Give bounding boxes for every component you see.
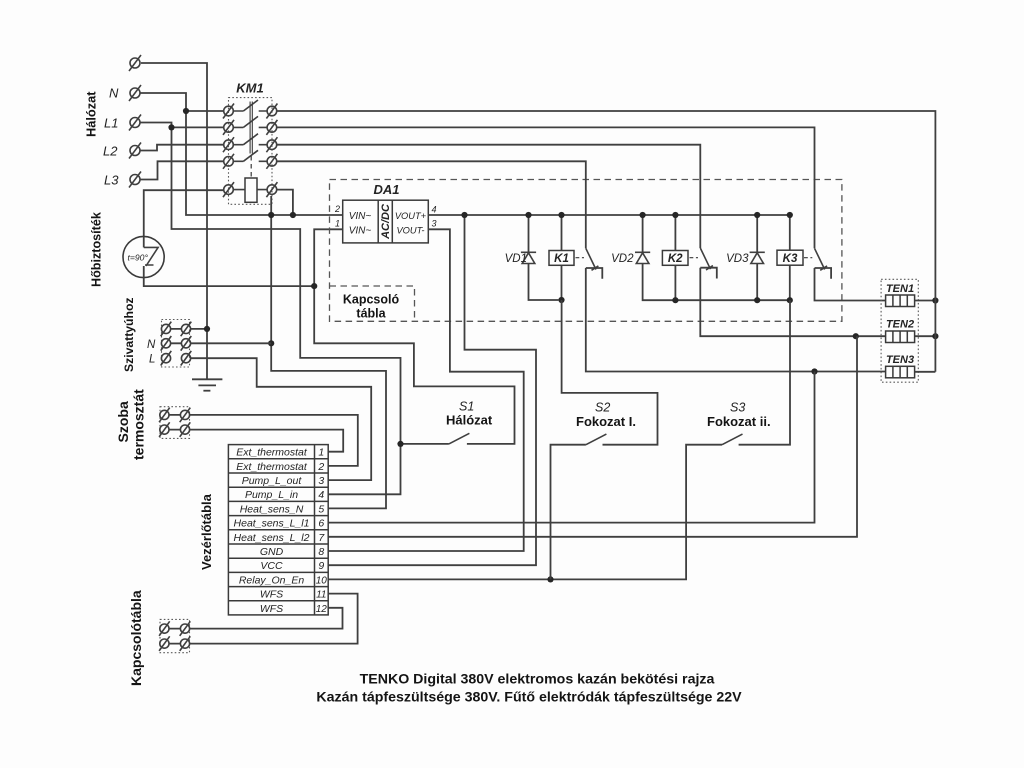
wire pump L to pin3 Pump_L_out (191, 358, 372, 480)
svg-text:4: 4 (432, 205, 437, 215)
svg-text:K2: K2 (668, 253, 683, 265)
svg-text:GND: GND (260, 546, 284, 558)
pump terminal row earth (161, 322, 207, 337)
relay coil K2 (662, 215, 698, 300)
svg-text:TEN1: TEN1 (886, 283, 914, 295)
relay contact K2 feeds TEN2 (700, 248, 886, 336)
svg-text:VCC: VCC (260, 560, 283, 572)
svg-text:Kapcsoló: Kapcsoló (343, 293, 400, 307)
wire KM1 coil right to N line (271, 190, 386, 509)
pin11 WFS (260, 589, 327, 601)
wire pin6 Heat_sens_L_l1 to TEN3 feed (328, 372, 814, 523)
diode VD1 (505, 215, 559, 300)
wire L3 to KM1 row4 (140, 161, 224, 179)
KM1 mechanical link (250, 102, 252, 179)
pin5 Heat_sens_N (240, 503, 325, 515)
svg-text:Hálózat: Hálózat (84, 91, 99, 137)
svg-text:WFS: WFS (260, 589, 283, 601)
wire pin7 Heat_sens_L_l2 to TEN2 feed (328, 336, 857, 537)
node K1 rail (558, 297, 564, 303)
wire fuse output to S1 feed node (144, 266, 314, 286)
svg-text:Vezérlőtábla: Vezérlőtábla (199, 493, 214, 570)
switch S2 (551, 300, 658, 579)
node coil-N b (290, 212, 296, 218)
svg-text:4: 4 (318, 489, 324, 501)
svg-text:VD3: VD3 (726, 253, 749, 265)
wire VOUT- pin3 to GND pin8 (328, 229, 523, 551)
label Vezerlotabla (199, 493, 214, 570)
relay coil K3 (777, 215, 812, 300)
svg-text:K1: K1 (554, 253, 569, 265)
pin2 Ext_thermostat (236, 461, 324, 473)
svg-text:t=90°: t=90° (128, 253, 149, 263)
node bus K2 (672, 212, 678, 218)
pump terminal block (162, 320, 190, 368)
heater enclosure dotted (881, 279, 918, 382)
diode VD2 (611, 215, 790, 300)
wire S1 feed loop to DA1 pin1 (314, 229, 514, 444)
node fuse-S1 (311, 283, 317, 289)
svg-text:TEN3: TEN3 (886, 354, 914, 366)
svg-text:L: L (149, 354, 155, 366)
heating element TEN3 (886, 354, 936, 378)
label Halozat left margin (84, 91, 99, 137)
pin9 VCC (260, 560, 324, 572)
svg-text:Szivattyúhoz: Szivattyúhoz (122, 298, 136, 373)
KM1 contact row1 (223, 100, 277, 119)
svg-text:10: 10 (316, 575, 328, 586)
relay contact K3 feeds TEN1 (815, 248, 886, 300)
wire fuse feed from KM1 coil left (144, 190, 224, 247)
thermostat terminal block (160, 407, 190, 439)
wire N to KM1 row1 and DA1 pin2 (140, 93, 343, 215)
node bus VD3 (754, 212, 760, 218)
pump terminal row L (149, 351, 191, 366)
heating element TEN2 (886, 319, 936, 343)
terminal X0 top spare (129, 55, 141, 71)
wire KM1 row4 L3 to K1 contact (277, 161, 586, 248)
node earth row (204, 326, 210, 332)
svg-text:Kapcsolótábla: Kapcsolótábla (128, 590, 144, 686)
svg-text:Ext_thermostat: Ext_thermostat (236, 447, 308, 459)
node coil-N a (268, 212, 274, 218)
switch panel row2 to pin11 (159, 594, 358, 651)
node bus K3 (787, 212, 793, 218)
caption line1 (360, 672, 715, 688)
svg-text:VD2: VD2 (611, 253, 634, 265)
node bus VCC tap (461, 212, 467, 218)
svg-text:2: 2 (334, 204, 340, 214)
node bus VD1 (525, 212, 531, 218)
svg-text:5: 5 (318, 503, 324, 515)
node K2 rail (672, 297, 678, 303)
node VD3 rail (754, 297, 760, 303)
svg-text:Heat_sens_N: Heat_sens_N (240, 503, 304, 515)
svg-text:7: 7 (318, 532, 325, 544)
KM1 contact row2 (223, 116, 277, 134)
svg-text:12: 12 (316, 604, 328, 615)
svg-text:Fokozat ii.: Fokozat ii. (707, 414, 771, 429)
svg-text:Hőbiztosíték: Hőbiztosíték (90, 211, 104, 287)
node TEN2 N bus (932, 333, 938, 339)
terminal N (109, 85, 141, 101)
wire KM1 row2 L1 to K3 contact (277, 127, 815, 248)
ground (192, 379, 222, 390)
svg-text:S3: S3 (730, 401, 745, 415)
wire pin10 Relay_On_En to S2 S3 (328, 445, 722, 580)
node TEN1 N bus (932, 297, 938, 303)
svg-text:S1: S1 (459, 400, 474, 414)
label Hobiztositek (90, 211, 104, 287)
node K3 rail (787, 297, 793, 303)
svg-text:Kazán tápfeszültsége 380V. Fűt: Kazán tápfeszültsége 380V. Fűtő elektród… (316, 690, 742, 706)
svg-text:Heat_sens_L_l2: Heat_sens_L_l2 (234, 532, 310, 544)
svg-text:2: 2 (317, 461, 324, 473)
svg-text:VOUT+: VOUT+ (395, 211, 427, 221)
label Kapcsolotabla (128, 590, 144, 686)
switch S3 (707, 300, 790, 445)
node bus K1 (558, 212, 564, 218)
node S1 pump tap (397, 441, 403, 447)
wire L1 to KM1 row2, down to S1 and pin4 Pump_L_in (140, 123, 401, 495)
node TEN3 sense tap (811, 368, 817, 374)
svg-text:N: N (147, 339, 156, 351)
wire N bus KM1 row1 to TEN commons (277, 111, 935, 372)
wire L2 to KM1 row3 (140, 145, 224, 151)
node relay enable S2 tap (547, 576, 553, 582)
control board connector block (228, 445, 328, 615)
svg-text:K3: K3 (783, 253, 798, 265)
switch S1 (401, 400, 493, 444)
svg-text:1: 1 (318, 447, 324, 459)
svg-text:Ext_thermostat: Ext_thermostat (236, 461, 308, 473)
pin10 Relay_On_En (239, 574, 327, 586)
relay contact K1 feeds TEN3 (586, 248, 886, 371)
thermostat row2 to pin1 (159, 422, 343, 451)
label Szoba termosztat (115, 389, 147, 460)
heating element TEN1 (886, 283, 936, 307)
svg-text:WFS: WFS (260, 603, 283, 615)
KM1 contact row3 (223, 134, 277, 153)
wire KM1 row3 L2 to K2 contact (277, 145, 700, 248)
svg-text:Pump_L_out: Pump_L_out (242, 475, 303, 487)
svg-text:TEN2: TEN2 (886, 319, 914, 331)
svg-text:tábla: tábla (356, 307, 386, 321)
svg-text:3: 3 (318, 475, 324, 487)
KM1 coil (223, 178, 277, 202)
KM1 contact row4 (223, 150, 277, 169)
pin6 Heat_sens_L_l1 (234, 518, 325, 530)
svg-text:Fokozat I.: Fokozat I. (576, 414, 636, 429)
wire top spare terminal to ground line (141, 63, 207, 379)
converter DA1 (334, 182, 437, 243)
pin1 Ext_thermostat (236, 447, 324, 459)
terminal L2 (103, 143, 141, 159)
switch panel dashed enclosure Kapcsolo tabla (330, 180, 842, 322)
svg-text:Hálózat: Hálózat (446, 413, 493, 428)
svg-text:L3: L3 (104, 173, 119, 188)
svg-text:6: 6 (318, 518, 324, 530)
thermal fuse t=90 (123, 236, 164, 277)
svg-text:AC/DC: AC/DC (380, 203, 392, 240)
svg-text:TENKO Digital 380V elektromos: TENKO Digital 380V elektromos kazán bekö… (360, 672, 715, 688)
label Szivattyuhoz (122, 298, 136, 373)
pin4 Pump_L_in (245, 489, 324, 501)
svg-text:L2: L2 (103, 144, 118, 159)
terminal L3 (104, 172, 141, 188)
pin3 Pump_L_out (242, 475, 325, 487)
svg-text:8: 8 (318, 546, 324, 558)
svg-text:KM1: KM1 (236, 81, 263, 96)
svg-text:Szoba: Szoba (115, 401, 131, 442)
diode VD3 (726, 215, 765, 300)
pin8 GND (260, 546, 325, 558)
svg-text:DA1: DA1 (373, 182, 399, 197)
thermostat row1 to pin2 (159, 408, 358, 466)
svg-text:VOUT-: VOUT- (396, 226, 424, 236)
pin12 WFS (260, 603, 327, 615)
svg-text:Heat_sens_L_l1: Heat_sens_L_l1 (234, 518, 310, 530)
wire DC plus bus from DA1 pin4 (428, 214, 790, 216)
node L1-KM1 row2 (168, 124, 174, 130)
svg-text:Relay_On_En: Relay_On_En (239, 574, 305, 586)
svg-text:11: 11 (316, 590, 326, 601)
svg-text:L1: L1 (104, 116, 118, 131)
svg-text:Pump_L_in: Pump_L_in (245, 489, 298, 501)
svg-text:VD1: VD1 (505, 253, 527, 265)
svg-text:S2: S2 (595, 401, 610, 415)
svg-text:termosztát: termosztát (131, 389, 147, 460)
svg-text:VIN~: VIN~ (349, 226, 372, 237)
relay coil K1 (549, 215, 584, 300)
svg-text:N: N (109, 86, 119, 101)
terminal L1 (104, 115, 141, 131)
node pump N tap (268, 340, 274, 346)
wire N to KM1 row1 (186, 110, 224, 112)
svg-text:VIN~: VIN~ (349, 211, 372, 222)
contactor KM1 (229, 81, 273, 205)
svg-text:3: 3 (432, 219, 437, 229)
node TEN2 sense tap (853, 333, 859, 339)
pin7 Heat_sens_L_l2 (234, 532, 326, 544)
node N-KM1 row1 (183, 108, 189, 114)
switch panel terminal block (160, 619, 190, 652)
svg-text:1: 1 (335, 219, 340, 229)
wire L1 to KM1 row2 (172, 126, 224, 128)
pump terminal row N (147, 336, 271, 351)
switch panel row1 to pin12 (159, 608, 342, 636)
caption line2 (316, 690, 742, 706)
svg-text:9: 9 (318, 560, 324, 572)
wire VOUT+ to VCC pin9 (328, 215, 536, 565)
node bus VD2 (640, 212, 646, 218)
